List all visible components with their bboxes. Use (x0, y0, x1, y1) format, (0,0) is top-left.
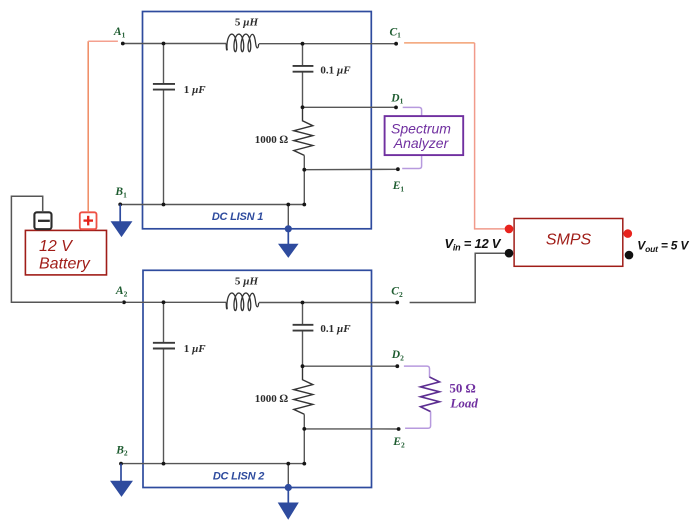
svg-text:5 µH: 5 µH (235, 17, 259, 29)
node junction 0.1uF top (301, 42, 305, 46)
svg-text:DC LISN 2: DC LISN 2 (213, 471, 264, 483)
ground symbol LISN1 bottom (279, 225, 298, 257)
load connector E2 (light purple) (405, 412, 431, 429)
wire C1 to SMPS (orange) (404, 42, 475, 44)
wire A2 to C2 (LISN2 top rail) (124, 301, 397, 303)
node E2 (397, 427, 401, 431)
node A1 (121, 42, 125, 46)
resistor 1000 ohm (LISN2) (294, 366, 313, 414)
wire E1 tap (304, 168, 398, 170)
inductor L1 5uH (226, 34, 259, 52)
wire SMPS return to C2 (gray) (410, 253, 505, 302)
spectrum analyzer connector E1 (light purple) (402, 155, 421, 168)
node junction E1 tap (302, 168, 306, 172)
DC LISN 2 box (143, 270, 372, 487)
svg-text:5 µH: 5 µH (235, 276, 259, 288)
node D1 (394, 106, 398, 110)
capacitor C 1uF plates (153, 84, 175, 90)
resistor 1000 ohm (LISN1) (294, 108, 313, 156)
SMPS box (514, 219, 623, 267)
node junction ground drop (LISN1) (286, 203, 290, 207)
node junction resistor top (301, 105, 305, 109)
node B1 (118, 203, 122, 207)
load connector D2 (light purple) (404, 366, 430, 377)
wire A1 to C1 (LISN1 top rail) (123, 43, 396, 45)
svg-text:DC LISN 1: DC LISN 1 (212, 211, 263, 223)
node junction ground drop (LISN2) (286, 462, 290, 466)
battery minus terminal (34, 212, 51, 229)
capacitor 1uF (LISN2) leads (163, 302, 165, 463)
svg-text:SMPS: SMPS (546, 231, 592, 248)
svg-text:1 µF: 1 µF (184, 84, 207, 96)
capacitor C 1uF (LISN1) leads (163, 44, 165, 205)
svg-text:0.1 µF: 0.1 µF (320, 323, 351, 335)
node E1 (396, 167, 400, 171)
battery 12V box (25, 230, 106, 275)
spectrum analyzer box (385, 116, 464, 155)
svg-text:12 V: 12 V (39, 238, 73, 255)
resistor 50 ohm load (421, 377, 440, 412)
node junction 0.1uF top (LISN2) (301, 301, 305, 305)
wire E2 tap (304, 428, 398, 430)
inductor L2 5uH (226, 293, 259, 311)
node C1 (394, 42, 398, 46)
node C2 (395, 301, 399, 305)
wire B2 bottom rail (121, 463, 304, 465)
wire battery minus to A2 (11, 196, 123, 302)
SMPS input red terminal (505, 225, 514, 234)
SMPS output black terminal (625, 251, 634, 260)
svg-text:1000 Ω: 1000 Ω (255, 393, 289, 405)
node B2 (119, 462, 123, 466)
wire B1 bottom rail (120, 204, 304, 206)
node junction resistor top (LISN2) (301, 364, 305, 368)
node A2 (122, 300, 126, 304)
capacitor 0.1uF (LISN1) leads (302, 44, 304, 108)
svg-text:Analyzer: Analyzer (393, 135, 450, 151)
wire D2 tap (303, 365, 398, 367)
wire D1 tap (303, 106, 397, 108)
svg-text:Battery: Battery (39, 255, 91, 272)
wire ground drop (LISN2) (287, 464, 289, 488)
node junction 1uF bottom (LISN2) (162, 462, 166, 466)
node junction 1uF bottom (162, 203, 166, 207)
spectrum analyzer connector D1 (light purple) (403, 107, 422, 116)
DC LISN 1 box (143, 12, 372, 229)
capacitor 0.1uF plates (293, 66, 314, 72)
ground symbol at B2 (111, 464, 132, 496)
svg-text:Load: Load (449, 396, 478, 411)
wire battery plus to A1 (orange) (87, 41, 89, 212)
ground symbol LISN2 bottom (279, 484, 298, 519)
svg-text:50 Ω: 50 Ω (449, 380, 475, 395)
capacitor 0.1uF (LISN2) plates (293, 325, 314, 331)
SMPS output red terminal (624, 229, 633, 238)
wire orange horizontal at A1 (88, 40, 118, 42)
SMPS input black terminal (505, 249, 514, 258)
wire resistor bottom to rail (LISN1) (303, 155, 305, 204)
battery plus terminal (80, 212, 97, 229)
node junction resistor bottom (302, 203, 306, 207)
svg-text:0.1 µF: 0.1 µF (320, 64, 351, 76)
svg-text:1 µF: 1 µF (184, 343, 207, 355)
capacitor 0.1uF (LISN2) leads (302, 303, 304, 367)
node D2 (395, 364, 399, 368)
wire resistor bottom to rail (LISN2) (303, 414, 305, 463)
node junction 1uF top (162, 42, 166, 46)
ground symbol at B1 (112, 204, 132, 236)
svg-text:Vout = 5 V: Vout = 5 V (637, 238, 689, 254)
node junction 1uF top (LISN2) (162, 300, 166, 304)
capacitor 1uF (LISN2) plates (153, 343, 175, 349)
svg-text:1000 Ω: 1000 Ω (255, 134, 289, 146)
wire ground drop (LISN1) (287, 205, 289, 229)
wire orange vertical to SMPS (475, 43, 505, 229)
node junction E2 tap (302, 427, 306, 431)
node junction resistor bottom (LISN2) (302, 462, 306, 466)
